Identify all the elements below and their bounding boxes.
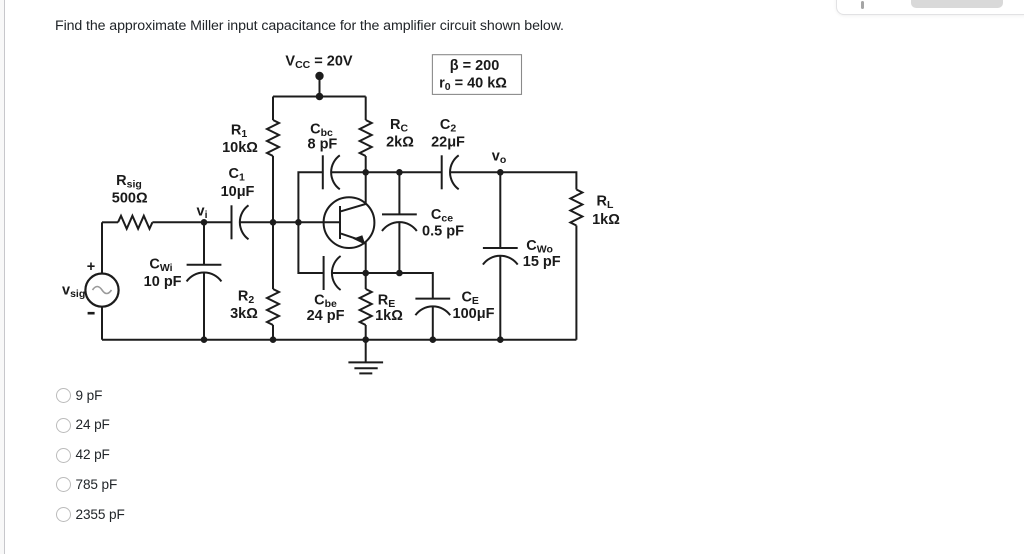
wire Cce top lead: [398, 172, 400, 214]
svg-text:2kΩ: 2kΩ: [386, 134, 414, 150]
wire Cbc branch stub: [298, 172, 322, 222]
wire collector row: [366, 171, 442, 173]
svg-text:1kΩ: 1kΩ: [592, 212, 620, 228]
label minus: [88, 312, 95, 315]
capacitor C1: [232, 205, 249, 239]
label Cbe: [314, 293, 337, 311]
svg-text:vsig: vsig: [62, 283, 85, 301]
capacitor Cbc: [323, 155, 340, 189]
wire Cbc to collector: [331, 171, 366, 173]
svg-text:24 pF: 24 pF: [307, 308, 345, 324]
svg-text:R2: R2: [238, 289, 254, 307]
label RE value: [375, 308, 403, 324]
wire bottom rail: [102, 339, 576, 341]
svg-text:C1: C1: [229, 166, 245, 184]
wire CWi top lead: [203, 222, 205, 264]
source Vsig sine: [93, 287, 112, 294]
svg-text:+: +: [87, 259, 95, 275]
wire Vcc stub: [319, 76, 321, 97]
resistor R1: [267, 120, 279, 156]
label CWi: [149, 256, 172, 274]
node top rail junction: [316, 93, 324, 101]
wire R2 top lead: [272, 222, 274, 289]
capacitor Cce: [382, 214, 417, 231]
svg-text:CWi: CWi: [149, 256, 172, 274]
svg-text:CWo: CWo: [526, 238, 553, 256]
wire RL bottom lead: [575, 226, 577, 340]
node Cce bottom junction: [396, 270, 403, 277]
wire base row left: [102, 221, 118, 223]
svg-text:R1: R1: [231, 122, 247, 140]
wire R1 top lead: [272, 97, 274, 121]
svg-text:RL: RL: [597, 194, 614, 212]
wire Cce bottom lead: [398, 222, 400, 273]
node base stub junction: [295, 219, 302, 226]
ground: [348, 340, 383, 374]
label Cce value: [422, 224, 464, 240]
transistor Q1 emitter lead: [341, 234, 366, 273]
resistor R2: [267, 289, 279, 325]
label vi: [197, 204, 208, 222]
svg-text:1kΩ: 1kΩ: [375, 308, 403, 324]
svg-text:8 pF: 8 pF: [307, 137, 337, 153]
label R1: [231, 122, 247, 140]
wire R1 bottom lead: [272, 156, 274, 222]
transistor Q1 emitter arrow: [354, 236, 364, 244]
wire C2 to vo: [450, 171, 500, 173]
label plus: [87, 259, 95, 275]
label CE: [461, 289, 479, 307]
label RL: [597, 194, 614, 212]
svg-text:Rsig: Rsig: [116, 173, 142, 191]
node collector junction: [362, 169, 369, 176]
label Rsig value: [112, 191, 148, 207]
wire Rc top lead: [365, 97, 367, 121]
source Vsig: [85, 274, 118, 307]
svg-text:22μF: 22μF: [431, 134, 465, 150]
node emitter junction: [362, 270, 369, 277]
label Rc: [390, 117, 408, 135]
wire RE top lead: [365, 273, 367, 289]
svg-text:vi: vi: [197, 204, 208, 222]
wire vo to RL: [500, 172, 576, 189]
label Rc value: [386, 134, 414, 150]
svg-text:CE: CE: [461, 289, 479, 307]
svg-text:0.5 pF: 0.5 pF: [422, 224, 464, 240]
wire Rc bottom lead: [365, 156, 367, 172]
wire CWi bottom lead: [203, 273, 205, 340]
resistor RE: [360, 289, 372, 325]
node Cce top junction: [396, 169, 403, 176]
svg-text:500Ω: 500Ω: [112, 191, 148, 207]
capacitor CWo: [483, 248, 518, 265]
wire R2 bottom lead: [272, 325, 274, 340]
wire CE top lead: [399, 273, 432, 299]
label R2: [238, 289, 254, 307]
resistor Rsig: [118, 216, 152, 229]
label C1 value: [221, 184, 255, 200]
label C2 value: [431, 134, 465, 150]
label CWi value: [144, 274, 182, 290]
capacitor C2: [442, 155, 459, 189]
transistor Q1 circle: [324, 197, 375, 248]
label Cbc value: [307, 137, 337, 153]
node base R1R2 junction: [270, 219, 277, 226]
wire RE bottom lead: [365, 325, 367, 340]
resistor RC: [360, 120, 372, 156]
resistor RL: [570, 190, 582, 226]
node CWo bottom junction: [497, 336, 504, 343]
svg-text:r0 = 40 kΩ: r0 = 40 kΩ: [439, 75, 507, 93]
node R2 bottom junction: [270, 336, 277, 343]
wire CWo top lead: [499, 172, 501, 248]
svg-text:3kΩ: 3kΩ: [230, 306, 258, 322]
wire Cbe branch stub: [298, 222, 323, 273]
label RE: [378, 293, 396, 311]
label Vcc = 20V: [285, 53, 352, 71]
svg-text:β = 200: β = 200: [450, 58, 500, 74]
label C2: [440, 117, 456, 135]
node Vcc terminal: [315, 72, 323, 80]
wire base row right: [240, 221, 340, 223]
transistor Q1 collector lead: [341, 172, 366, 211]
transistor Q1 base bar: [339, 206, 341, 239]
parameter box: [432, 55, 521, 95]
label vo: [492, 149, 507, 167]
label beta = 200: [450, 58, 500, 74]
wire Rsig to C1: [152, 221, 231, 223]
label Cce: [431, 207, 453, 225]
label R1 value: [222, 140, 258, 156]
wire vsig top lead: [101, 222, 103, 273]
wire vsig bottom lead: [101, 307, 103, 340]
label ro = 40 kOhm: [439, 75, 507, 93]
label CWo: [526, 238, 553, 256]
wire CWo bottom lead: [499, 256, 501, 340]
label C1: [229, 166, 245, 184]
svg-text:VCC = 20V: VCC = 20V: [285, 53, 352, 71]
label RL value: [592, 212, 620, 228]
svg-text:Cce: Cce: [431, 207, 453, 225]
capacitor Cbe: [324, 256, 341, 290]
node ground junction: [362, 336, 369, 343]
svg-text:10 pF: 10 pF: [144, 274, 182, 290]
label vsig: [62, 283, 85, 301]
node vo: [497, 169, 504, 176]
label CE value: [453, 306, 495, 322]
svg-text:10kΩ: 10kΩ: [222, 140, 258, 156]
label Cbe value: [307, 308, 345, 324]
svg-text:C2: C2: [440, 117, 456, 135]
label Cbc: [310, 121, 333, 139]
node CWi bottom junction: [201, 336, 208, 343]
wire Cbe to emitter: [332, 272, 366, 274]
wire CE bottom lead: [432, 306, 434, 339]
wire emitter row: [366, 272, 400, 274]
svg-text:RC: RC: [390, 117, 408, 135]
svg-text:15 pF: 15 pF: [523, 254, 561, 270]
capacitor CWi: [187, 265, 222, 282]
capacitor CE: [415, 299, 450, 316]
svg-text:vo: vo: [492, 149, 507, 167]
node CE ground junction: [430, 336, 437, 343]
label Rsig: [116, 173, 142, 191]
label CWo value: [523, 254, 561, 270]
node vi: [201, 219, 208, 226]
svg-text:10μF: 10μF: [221, 184, 255, 200]
wire top rail: [273, 96, 366, 98]
label R2 value: [230, 306, 258, 322]
svg-text:100μF: 100μF: [453, 306, 495, 322]
